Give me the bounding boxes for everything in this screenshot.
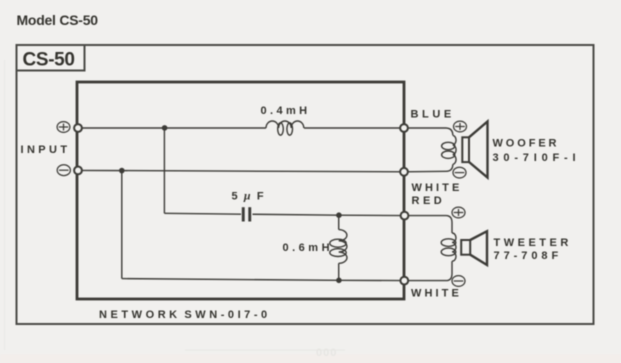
node: tweeter plus RED [401, 212, 409, 220]
svg-text:NETWORKSWN-0I7-0: NETWORKSWN-0I7-0 [99, 309, 271, 321]
svg-text:5μF: 5μF [232, 189, 264, 203]
svg-text:0.4mH: 0.4mH [261, 105, 311, 117]
tweeter speaker icon [461, 240, 470, 255]
inductor L2 0.6mH shunt branch [338, 215, 340, 229]
woofer voice coil [453, 135, 456, 164]
node: input minus [74, 167, 82, 175]
tweeter voice coil [452, 233, 456, 261]
thick circuit frame [77, 82, 404, 299]
woofer minus terminal symbol [453, 167, 466, 178]
svg-text:WHITE: WHITE [412, 182, 463, 194]
outer border frame [17, 45, 594, 324]
wire: tweeter minus lead [404, 261, 452, 280]
svg-text:TWEETER: TWEETER [494, 237, 572, 249]
node: woofer minus WHITE [400, 168, 408, 176]
svg-text:WOOFER: WOOFER [493, 138, 560, 150]
svg-text:000: 000 [316, 347, 337, 359]
tweeter plus terminal symbol [452, 207, 465, 218]
svg-text:BLUE: BLUE [411, 109, 455, 121]
wire: capacitor line to tweeter plus [164, 212, 241, 215]
svg-text:Model CS-50: Model CS-50 [17, 12, 99, 28]
svg-text:0.6mH: 0.6mH [283, 242, 334, 254]
wire: woofer plus lead [404, 128, 453, 135]
svg-text:CS-50: CS-50 [23, 50, 75, 71]
wire: tweeter plus lead [405, 216, 453, 233]
wire: minus line input to woofer [78, 170, 404, 171]
node: woofer plus BLUE [400, 124, 408, 132]
input minus terminal symbol [57, 165, 70, 176]
CS-50 title box [17, 45, 85, 71]
junction dot on plus line [162, 125, 168, 131]
junction dot on minus line [119, 168, 125, 174]
node: input plus [74, 124, 82, 132]
wire: drop from plus line to capacitor branch [163, 128, 165, 213]
wire: woofer minus lead [404, 164, 453, 171]
input plus terminal symbol [57, 122, 70, 133]
wire: bottom return line to tweeter minus [122, 279, 405, 281]
node: tweeter minus WHITE [400, 277, 408, 285]
junction dot top of L2 [336, 212, 342, 218]
svg-text:WHITE: WHITE [411, 288, 462, 300]
capacitor C1 5uF [242, 207, 245, 221]
woofer speaker icon [462, 137, 469, 162]
wire: plus line input to woofer [78, 127, 266, 129]
svg-text:RED: RED [412, 195, 446, 207]
junction dot bottom of L2 [336, 278, 342, 284]
woofer plus terminal symbol [454, 121, 467, 132]
tweeter minus terminal symbol [452, 276, 465, 287]
wire: drop from minus line to bottom return [121, 171, 123, 279]
svg-text:77-708F: 77-708F [494, 250, 563, 262]
svg-text:30-7I0F-I: 30-7I0F-I [493, 152, 581, 164]
inductor L1 0.4mH [266, 121, 304, 128]
svg-text:INPUT: INPUT [21, 144, 71, 156]
